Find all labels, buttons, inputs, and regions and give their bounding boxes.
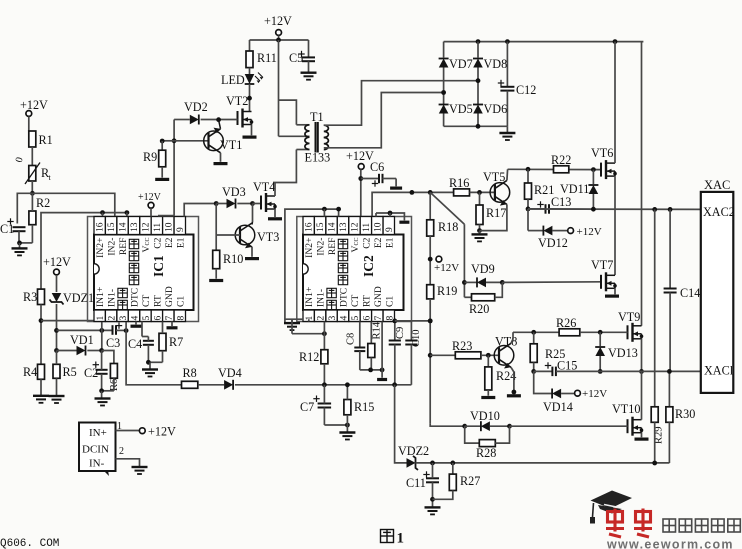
svg-text:+12V: +12V bbox=[434, 262, 459, 274]
svg-text:C13: C13 bbox=[551, 195, 571, 209]
resistor R27 bbox=[452, 463, 454, 474]
svg-text:IN1+: IN1+ bbox=[304, 287, 315, 307]
diode VD4 bbox=[224, 380, 233, 390]
resistor R24 bbox=[487, 355, 489, 367]
svg-text:4: 4 bbox=[340, 316, 350, 321]
svg-text:3: 3 bbox=[328, 316, 338, 321]
ground bbox=[346, 425, 348, 432]
svg-text:XAC: XAC bbox=[704, 178, 730, 192]
svg-text:IN2-: IN2- bbox=[107, 238, 118, 256]
svg-text:7: 7 bbox=[374, 316, 384, 321]
svg-text:IN+: IN+ bbox=[89, 427, 107, 439]
LED bbox=[249, 68, 251, 74]
resistor R4 bbox=[38, 364, 45, 379]
node bbox=[146, 360, 151, 365]
node bbox=[668, 207, 673, 212]
svg-text:CT: CT bbox=[350, 295, 361, 307]
wire VT9 source to XAC1 row bbox=[641, 339, 643, 372]
wire C9 column to VDZ2 row bbox=[395, 385, 407, 463]
svg-text:C3: C3 bbox=[106, 336, 120, 350]
capacitor C3 bbox=[112, 325, 114, 335]
svg-text:R14: R14 bbox=[372, 321, 383, 339]
node bbox=[613, 39, 618, 44]
ground (VT3 emitter) bbox=[251, 247, 253, 257]
power +12V terminal bbox=[436, 256, 442, 262]
svg-text:R3: R3 bbox=[23, 290, 37, 304]
wire bbox=[18, 231, 20, 243]
ground bbox=[481, 396, 495, 399]
svg-text:VD13: VD13 bbox=[608, 346, 638, 360]
wire VT1 emitter to VD2 row bbox=[219, 120, 221, 129]
node bbox=[507, 424, 512, 429]
capacitor C2 bbox=[93, 364, 99, 366]
node bbox=[39, 318, 44, 323]
svg-text:7: 7 bbox=[165, 316, 175, 321]
node bbox=[598, 330, 603, 335]
svg-text:2: 2 bbox=[108, 316, 118, 321]
ground bbox=[49, 395, 65, 397]
wire bbox=[323, 322, 325, 350]
ground bbox=[479, 231, 481, 235]
node (VD8/VD6 junction) bbox=[476, 78, 481, 83]
svg-text:VD2: VD2 bbox=[184, 100, 208, 114]
svg-text:R22: R22 bbox=[551, 153, 571, 167]
wire bbox=[443, 68, 445, 105]
wire bbox=[28, 116, 30, 131]
node bbox=[639, 369, 644, 374]
wire VT6 drain from top rail bbox=[614, 42, 616, 164]
ground bbox=[506, 126, 508, 133]
diode VD7 bbox=[443, 42, 445, 58]
svg-text:RT: RT bbox=[152, 295, 163, 307]
svg-text:IN-: IN- bbox=[89, 458, 105, 470]
wire R3 top row to IC1 pins 15/13 bbox=[41, 213, 127, 290]
wire T1 taps left bbox=[296, 124, 309, 126]
svg-text:C7: C7 bbox=[300, 400, 314, 414]
svg-text:VT5: VT5 bbox=[483, 170, 505, 184]
node bbox=[428, 353, 433, 358]
svg-text:VT7: VT7 bbox=[591, 258, 613, 272]
node (C1/R2 junction) bbox=[17, 241, 22, 246]
svg-text:+12V: +12V bbox=[148, 425, 176, 439]
op-amp IC1 (TL494 PWM controller) bbox=[88, 217, 199, 322]
node bbox=[100, 210, 105, 215]
node bbox=[430, 497, 435, 502]
capacitor C1 bbox=[7, 221, 13, 223]
capacitor C15 bbox=[534, 370, 552, 372]
thermistor Rt bbox=[29, 166, 36, 182]
resistor R25 bbox=[533, 332, 535, 344]
wire IC2 pins15/14 ground rail bbox=[285, 209, 339, 322]
svg-text:R17: R17 bbox=[486, 206, 506, 220]
resistor R18 bbox=[429, 192, 431, 219]
wire long to IC1 pin14 bbox=[32, 193, 114, 216]
ground (VT4 source) bbox=[274, 209, 276, 217]
resistor R20 bbox=[464, 296, 471, 298]
node bbox=[428, 257, 433, 262]
svg-text:5: 5 bbox=[142, 316, 152, 321]
svg-text:VT9: VT9 bbox=[618, 310, 640, 324]
resistor R26 bbox=[559, 329, 580, 336]
resistor R1 bbox=[29, 131, 36, 147]
ground bbox=[209, 279, 223, 282]
ground bbox=[399, 221, 409, 224]
node (C3 right / feedback node) bbox=[124, 328, 129, 333]
node bbox=[345, 423, 350, 428]
node bbox=[505, 39, 510, 44]
wire down to R8 row bbox=[126, 331, 181, 385]
svg-text:R15: R15 bbox=[354, 400, 374, 414]
svg-text:VD1: VD1 bbox=[70, 333, 94, 347]
svg-text:IN1-: IN1- bbox=[107, 289, 118, 307]
ground bbox=[507, 394, 521, 397]
svg-text:XACl: XACl bbox=[704, 364, 734, 378]
node (pin2 column crossing) bbox=[99, 328, 104, 333]
wire bbox=[429, 299, 431, 424]
svg-text:16: 16 bbox=[305, 222, 315, 232]
svg-text:C5: C5 bbox=[289, 51, 303, 65]
node bbox=[430, 461, 435, 466]
node bbox=[477, 228, 482, 233]
capacitor C13 bbox=[528, 208, 545, 210]
node bbox=[428, 190, 433, 195]
ground bbox=[214, 162, 228, 165]
wire IC1 pin8 ground stub bbox=[171, 322, 173, 327]
resistor R30 bbox=[668, 371, 670, 406]
svg-text:12: 12 bbox=[351, 222, 361, 232]
diode VD6 bbox=[473, 105, 483, 114]
ground bbox=[291, 319, 293, 323]
node bbox=[336, 207, 341, 212]
ground (VT7 source) bbox=[614, 288, 616, 294]
node bbox=[322, 331, 327, 336]
diode VD14 bbox=[552, 389, 561, 399]
wire VT8 collector bbox=[511, 332, 513, 343]
node bbox=[428, 319, 433, 324]
node bbox=[428, 319, 433, 324]
svg-text:VT2: VT2 bbox=[226, 94, 248, 108]
svg-text:VD6: VD6 bbox=[484, 102, 508, 116]
wire bbox=[150, 208, 152, 216]
resistor R2 bbox=[29, 211, 36, 225]
node (VD1 row left) bbox=[54, 348, 59, 353]
wire bbox=[148, 361, 162, 363]
diode VD3 bbox=[216, 203, 226, 205]
wire bbox=[360, 369, 382, 371]
svg-text:VD14: VD14 bbox=[543, 400, 573, 414]
svg-text:E2: E2 bbox=[373, 237, 384, 248]
ground (VT10 source) bbox=[641, 433, 643, 438]
node bbox=[99, 388, 104, 393]
svg-text:C1: C1 bbox=[0, 222, 14, 236]
node bbox=[345, 382, 350, 387]
wire T1 secondary top to bridge bbox=[324, 81, 478, 126]
capacitor C11 bbox=[423, 474, 429, 476]
capacitor C5 bbox=[308, 40, 310, 57]
wire bbox=[510, 425, 628, 427]
wire pin13 stub bbox=[126, 213, 128, 217]
svg-text:R1: R1 bbox=[39, 133, 53, 147]
svg-text:+12V: +12V bbox=[577, 226, 602, 238]
svg-text:IN1+: IN1+ bbox=[95, 287, 106, 307]
node bbox=[477, 190, 482, 195]
svg-text:R26: R26 bbox=[556, 316, 576, 330]
svg-text:15: 15 bbox=[316, 222, 326, 232]
wire bbox=[31, 193, 33, 211]
svg-text:10: 10 bbox=[373, 222, 383, 232]
power +12V terminal bbox=[575, 390, 581, 396]
wire VD2 column down to IC1 pin9 bbox=[173, 120, 175, 216]
svg-text:C11: C11 bbox=[406, 476, 426, 490]
wire bbox=[40, 379, 42, 395]
wire IC2 pin8 row bbox=[394, 322, 396, 341]
wire R25 column to VD14 bbox=[534, 371, 552, 393]
svg-text:R8: R8 bbox=[183, 366, 197, 380]
ground bbox=[390, 187, 402, 190]
svg-text:REF: REF bbox=[327, 238, 338, 256]
svg-text:C15: C15 bbox=[557, 359, 577, 373]
resistor R29 bbox=[651, 407, 658, 423]
wire VT6 source to VT7 bbox=[614, 176, 616, 275]
svg-text:IN1-: IN1- bbox=[316, 289, 327, 307]
svg-text:9: 9 bbox=[385, 227, 395, 232]
wire VT5 collector bbox=[506, 169, 509, 180]
svg-text:VD9: VD9 bbox=[471, 262, 495, 276]
svg-text:E1: E1 bbox=[384, 237, 395, 248]
resistor R6 bbox=[102, 351, 114, 364]
resistor R10 bbox=[213, 250, 220, 268]
resistor R7 bbox=[159, 333, 166, 350]
wire bbox=[324, 424, 347, 426]
node bbox=[591, 207, 596, 212]
node A (R2 top junction) bbox=[30, 191, 35, 196]
wire bbox=[395, 320, 430, 322]
svg-text:R23: R23 bbox=[452, 339, 472, 353]
svg-text:VDZ1: VDZ1 bbox=[63, 291, 94, 305]
wire bridge bottom rail bbox=[444, 125, 508, 127]
node bbox=[392, 319, 397, 324]
node bbox=[358, 176, 363, 181]
node (VD1 row right) bbox=[99, 348, 104, 353]
wire VT5 emitter bbox=[480, 204, 507, 230]
svg-text:R4: R4 bbox=[23, 365, 37, 379]
node bbox=[531, 369, 536, 374]
ground bbox=[381, 370, 383, 378]
wire bbox=[56, 275, 58, 292]
svg-text:VD4: VD4 bbox=[218, 366, 242, 380]
wire VT3 base bbox=[216, 234, 240, 236]
svg-text:3: 3 bbox=[119, 316, 129, 321]
svg-text:R5: R5 bbox=[63, 365, 77, 379]
svg-text:1: 1 bbox=[305, 316, 315, 321]
svg-text:13: 13 bbox=[130, 222, 140, 232]
node bbox=[652, 461, 657, 466]
power +12V terminal bbox=[568, 228, 574, 234]
svg-text:R28: R28 bbox=[476, 446, 496, 460]
node bbox=[591, 167, 596, 172]
wire VT10 drain bbox=[641, 371, 643, 419]
ground bbox=[301, 71, 317, 73]
node bbox=[250, 201, 255, 206]
svg-text:VD7: VD7 bbox=[449, 57, 473, 71]
svg-text:IN2-: IN2- bbox=[316, 238, 327, 256]
svg-text:1: 1 bbox=[96, 316, 106, 321]
connector DCIN bbox=[79, 423, 116, 472]
diode VD13 bbox=[599, 332, 601, 346]
node bbox=[476, 39, 481, 44]
node bbox=[462, 424, 467, 429]
wire T1 secondary bottom to bridge bbox=[324, 93, 444, 148]
svg-text:CT: CT bbox=[141, 295, 152, 307]
wire bbox=[470, 191, 495, 193]
node bbox=[652, 207, 657, 212]
wire bbox=[198, 384, 224, 386]
svg-text:E2: E2 bbox=[164, 237, 175, 248]
wire pins 10/11 tie bbox=[158, 215, 174, 217]
wire VT1 base bbox=[174, 140, 208, 142]
svg-text:4: 4 bbox=[131, 316, 141, 321]
caption 图1 bbox=[381, 530, 394, 543]
svg-text:VT3: VT3 bbox=[257, 230, 279, 244]
svg-text:C4: C4 bbox=[128, 337, 142, 351]
svg-text:REF: REF bbox=[118, 238, 129, 256]
resistor R5 bbox=[53, 364, 60, 378]
node bbox=[214, 201, 219, 206]
ground bbox=[101, 391, 103, 399]
svg-text:C14: C14 bbox=[680, 286, 700, 300]
wire bbox=[249, 84, 251, 111]
wire VT4 drain bbox=[274, 183, 276, 197]
svg-text:R27: R27 bbox=[460, 474, 480, 488]
node bbox=[322, 207, 327, 212]
node bbox=[276, 38, 281, 43]
resistor R12 bbox=[321, 350, 328, 364]
resistor R15 bbox=[344, 400, 351, 415]
svg-text:XAC2: XAC2 bbox=[703, 205, 735, 219]
node bbox=[512, 390, 517, 395]
wire IC2 pin7 stub bbox=[381, 322, 383, 370]
wire VT8 emitter bbox=[511, 367, 514, 392]
capacitor C7 bbox=[313, 398, 319, 400]
svg-text:8: 8 bbox=[176, 316, 186, 321]
resistor R9 bbox=[162, 140, 174, 142]
svg-text:C12: C12 bbox=[516, 83, 536, 97]
wire feedback row to R12 bbox=[292, 333, 324, 335]
svg-text:R19: R19 bbox=[437, 284, 457, 298]
svg-text:13: 13 bbox=[339, 222, 349, 232]
svg-text:C9: C9 bbox=[395, 327, 406, 339]
wire bbox=[429, 236, 431, 285]
node bbox=[247, 96, 252, 101]
diode VD5 bbox=[439, 105, 449, 114]
wire VT8 collector row to VT9 gate bbox=[513, 331, 559, 333]
node bbox=[486, 353, 491, 358]
wire diagonal to VD9 bbox=[430, 192, 464, 224]
wire XAC2 row bbox=[528, 208, 701, 210]
wire bbox=[31, 147, 33, 166]
svg-text:6: 6 bbox=[362, 316, 372, 321]
svg-text:VT10: VT10 bbox=[612, 402, 640, 416]
node bbox=[667, 369, 672, 374]
wire IC2 pins 9/10 tie bbox=[376, 213, 404, 220]
wire T1 primary bottom to VT4 drain bbox=[273, 150, 296, 183]
svg-text:IC2: IC2 bbox=[361, 255, 376, 277]
wire IC1 pin2 column bbox=[101, 322, 103, 351]
svg-text:15: 15 bbox=[107, 222, 117, 232]
svg-text:LED: LED bbox=[221, 73, 245, 87]
svg-text:+12V: +12V bbox=[138, 192, 162, 203]
resistor R3 bbox=[38, 289, 45, 304]
resistor R21 bbox=[527, 169, 529, 183]
svg-text:GND: GND bbox=[164, 286, 175, 307]
svg-text:16: 16 bbox=[96, 222, 106, 232]
node bbox=[476, 124, 481, 129]
node bbox=[500, 280, 505, 285]
wire bbox=[323, 209, 325, 216]
node bbox=[531, 330, 536, 335]
watermark 虫虫 characters bbox=[606, 509, 624, 538]
node bbox=[322, 382, 327, 387]
svg-text:12: 12 bbox=[142, 222, 152, 232]
node bbox=[392, 382, 397, 387]
svg-text:VD5: VD5 bbox=[449, 102, 473, 116]
svg-text:R12: R12 bbox=[299, 350, 319, 364]
node (VD7/VD5 junction) bbox=[441, 90, 446, 95]
zener diode VDZ1 bbox=[52, 293, 62, 302]
svg-text:R30: R30 bbox=[675, 407, 695, 421]
svg-text:2: 2 bbox=[119, 446, 124, 457]
ground bbox=[251, 125, 253, 136]
svg-text:C2: C2 bbox=[84, 366, 98, 380]
resistor R16 bbox=[454, 189, 470, 196]
resistor R11 bbox=[249, 40, 251, 51]
svg-text:C1: C1 bbox=[384, 296, 395, 307]
svg-text:R10: R10 bbox=[223, 252, 243, 266]
svg-text:VT6: VT6 bbox=[591, 146, 613, 160]
svg-text:14: 14 bbox=[328, 222, 338, 232]
svg-text:+12V: +12V bbox=[20, 98, 48, 112]
wire pin3 stub bbox=[125, 322, 127, 331]
diode VD1 bbox=[57, 350, 77, 352]
wire VT5-VT6 row bbox=[508, 168, 601, 170]
svg-text:11: 11 bbox=[362, 223, 372, 232]
wire IC1 pin9 (E1) to VD3 bbox=[184, 204, 216, 217]
svg-text:+12V: +12V bbox=[43, 255, 71, 269]
svg-text:DTC: DTC bbox=[130, 288, 141, 307]
wire VT9 drain from top rail bbox=[641, 42, 643, 326]
wire C14 column bbox=[669, 209, 671, 288]
wire R29 column bbox=[654, 209, 656, 406]
ground bbox=[161, 167, 163, 178]
svg-text:T1: T1 bbox=[310, 110, 324, 124]
watermark 电子下载站 text bbox=[663, 519, 676, 532]
svg-text:R11: R11 bbox=[257, 51, 277, 65]
svg-text:C6: C6 bbox=[370, 160, 384, 174]
svg-text:IN2+: IN2+ bbox=[304, 238, 315, 258]
svg-text:1: 1 bbox=[397, 531, 405, 547]
svg-text:5: 5 bbox=[351, 316, 361, 321]
watermark graduation cap logo bbox=[591, 491, 633, 509]
svg-text:Q606. COM: Q606. COM bbox=[0, 538, 59, 549]
ground bbox=[132, 466, 148, 468]
svg-text:VD10: VD10 bbox=[470, 409, 500, 423]
node bbox=[450, 461, 455, 466]
node bbox=[526, 167, 531, 172]
wire VT10 gate row bbox=[430, 424, 465, 427]
resistor R22 bbox=[554, 166, 569, 173]
svg-text:GND: GND bbox=[373, 286, 384, 307]
svg-text:14: 14 bbox=[119, 222, 129, 232]
